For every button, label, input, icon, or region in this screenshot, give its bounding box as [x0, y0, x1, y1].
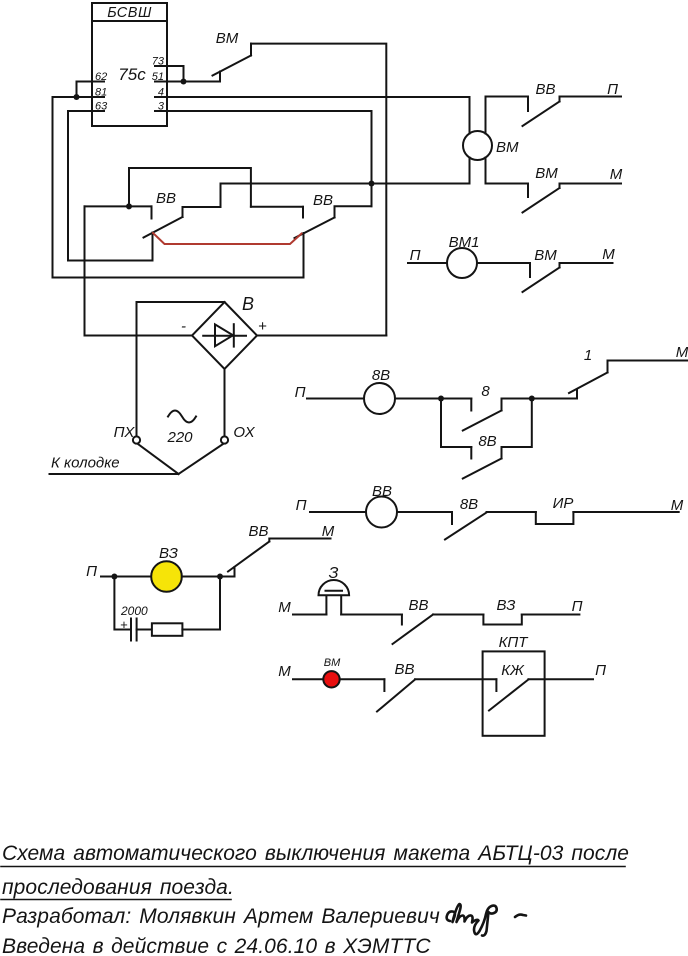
wire lamp VM to contact VV — [340, 678, 385, 680]
wire from first VV terminal down to bridge minus — [85, 206, 193, 335]
coil VM1 — [447, 248, 477, 278]
wire to IR — [487, 511, 536, 513]
svg-text:Схема автоматического выключен: Схема автоматического выключения макета … — [2, 842, 629, 865]
wire to contact VZ — [433, 614, 483, 616]
svg-text:П: П — [296, 497, 307, 514]
svg-text:КПТ: КПТ — [499, 634, 530, 651]
wire PH lead to plug — [138, 444, 179, 474]
wire bell to contact VV — [341, 614, 402, 616]
svg-text:ВЗ: ВЗ — [497, 597, 516, 614]
pin 81 tick — [92, 96, 104, 98]
svg-text:ВВ: ВВ — [394, 661, 414, 678]
svg-text:ВЗ: ВЗ — [159, 545, 178, 562]
svg-text:ВМ: ВМ — [324, 657, 341, 669]
svg-text:220: 220 — [166, 429, 193, 446]
pin 73 tick — [155, 65, 167, 67]
svg-text:ПХ: ПХ — [114, 424, 136, 441]
svg-text:М: М — [676, 344, 688, 361]
contact VM row M — [527, 184, 529, 198]
contact VV second — [302, 207, 304, 218]
wire M to lamp VM — [293, 678, 323, 680]
wire pin3 right and down — [167, 111, 372, 206]
block U1 title separator — [92, 20, 167, 22]
contact VV row bell — [401, 615, 403, 625]
junction pin3 branch — [369, 181, 375, 187]
bell Z legs — [325, 596, 327, 615]
wire to KPT box — [415, 678, 496, 680]
lamp VM red — [323, 671, 339, 687]
wire lamp to contact VV — [182, 576, 235, 578]
svg-text:8: 8 — [481, 383, 490, 400]
block KPT box — [483, 651, 545, 735]
resistor R — [152, 623, 183, 636]
capacitor C 2000 plates — [130, 619, 132, 641]
wire pin51 to contact VM — [167, 81, 220, 83]
svg-text:К колодке: К колодке — [51, 455, 120, 472]
coil 8V — [364, 383, 395, 414]
contact 8 — [470, 399, 472, 411]
title underline 1 — [1, 866, 625, 868]
svg-text:62: 62 — [95, 71, 107, 83]
block U1 BSVSh box — [92, 3, 167, 126]
svg-text:ВМ: ВМ — [534, 247, 557, 264]
contact VV row VZ (step) — [234, 567, 236, 577]
wire pin63 left and down — [68, 111, 153, 261]
svg-text:П: П — [572, 598, 583, 615]
wire P to coil 8V — [307, 398, 364, 400]
wire to terminal strip — [50, 473, 179, 475]
contact VV bottom row — [383, 679, 385, 691]
svg-text:П: П — [295, 384, 306, 401]
contact VV row P — [527, 97, 529, 112]
wire IR to M — [573, 511, 678, 513]
svg-text:4: 4 — [158, 87, 164, 99]
contact VM top (step) — [219, 72, 221, 82]
coil VV — [366, 497, 397, 528]
pin 4 tick — [155, 96, 167, 98]
symbol AC sine — [168, 411, 196, 423]
wire OH lead to plug — [179, 444, 224, 474]
svg-text:П: П — [410, 247, 421, 264]
svg-text:Введена в действие с 24.06.10: Введена в действие с 24.06.10 в ХЭМТТС — [2, 935, 431, 956]
wire branch to second VV blade top — [335, 206, 372, 217]
svg-text:2000: 2000 — [120, 604, 148, 618]
svg-text:ВВ: ВВ — [156, 190, 176, 207]
contact 8V row VV — [451, 512, 453, 524]
contact VM row VM1 — [529, 263, 531, 277]
coil VM — [463, 97, 492, 184]
wire coil to contact VV row P — [486, 96, 529, 98]
svg-text:ОХ: ОХ — [233, 424, 255, 441]
wire pin73 over to pin51 level — [167, 66, 184, 82]
svg-text:63: 63 — [95, 101, 108, 113]
wire pin81 left and down to bottom rail — [53, 97, 304, 278]
pin 51 tick — [155, 81, 167, 83]
svg-text:М: М — [278, 663, 291, 680]
wire second VV left terminal — [251, 206, 303, 208]
wire bridge AC top to PH — [137, 302, 225, 437]
svg-text:М: М — [278, 599, 291, 616]
title underline 2 — [1, 899, 231, 901]
svg-text:В: В — [242, 294, 254, 314]
terminal PH — [133, 436, 140, 443]
svg-text:3: 3 — [158, 101, 165, 113]
wire first VV blade top run — [183, 184, 372, 218]
pin 3 tick — [155, 110, 167, 112]
wire bridge AC bottom to OH — [224, 369, 226, 437]
svg-text:51: 51 — [152, 71, 164, 83]
svg-text:БСВШ: БСВШ — [107, 5, 152, 21]
svg-text:ВМ: ВМ — [496, 139, 519, 156]
wire bridge plus to main vertical — [257, 335, 386, 337]
svg-text:ВМ: ВМ — [535, 165, 558, 182]
svg-text:П: П — [595, 662, 606, 679]
wire coil VV to contact 8V — [397, 511, 452, 513]
junction pins 62-81 — [74, 94, 80, 100]
wire resistor up to lamp right node — [182, 577, 220, 630]
wire coil VM1 to contact — [477, 262, 530, 264]
svg-text:1: 1 — [584, 347, 592, 364]
svg-text:+: + — [258, 318, 267, 335]
wire P to coil VV — [310, 511, 366, 513]
contact KZh inside KPT — [495, 679, 497, 691]
wire pin4 to coil VM — [167, 96, 470, 98]
svg-text:8В: 8В — [372, 367, 390, 384]
contact IR bracket — [536, 512, 574, 524]
wire P to lamp VZ — [101, 576, 152, 578]
wire cap to resistor — [137, 629, 152, 631]
branch parallel 8V contact — [441, 399, 471, 448]
wire KZh to P — [528, 678, 593, 680]
svg-text:Разработал: Молявкин Артем Вал: Разработал: Молявкин Артем Валериевич — [2, 905, 440, 928]
wire pin62 to junction — [77, 82, 93, 98]
wire coil to contact VM row M — [486, 183, 529, 185]
bell Z chord — [326, 590, 343, 592]
svg-text:ВВ: ВВ — [408, 597, 428, 614]
svg-text:8В: 8В — [460, 496, 478, 513]
svg-text:75с: 75с — [118, 65, 146, 84]
junction node right 8V pair — [529, 396, 535, 402]
svg-text:КЖ: КЖ — [501, 662, 525, 679]
wire from junction to coil VM bottom — [372, 183, 470, 185]
bell Z dome — [319, 580, 350, 595]
contact VV first — [151, 206, 153, 218]
wire left terminal feed first VV — [85, 205, 152, 207]
svg-text:ВВ: ВВ — [372, 483, 392, 500]
svg-text:ВВ: ВВ — [248, 523, 268, 540]
wire loop top between VV contacts — [129, 168, 251, 207]
svg-text:81: 81 — [95, 87, 107, 99]
svg-text:М: М — [671, 497, 684, 514]
wire coil 8V to node — [395, 398, 471, 400]
svg-text:ВМ: ВМ — [216, 30, 239, 47]
wire top rail to main vertical — [251, 44, 386, 336]
junction node left 8V pair — [438, 396, 444, 402]
svg-text:П: П — [607, 81, 618, 98]
signature — [447, 904, 526, 936]
junction loop top — [126, 203, 132, 209]
svg-text:М: М — [322, 523, 335, 540]
junction lamp right — [217, 574, 223, 580]
junction pins 73-51 — [181, 79, 187, 85]
terminal OH — [221, 436, 228, 443]
wire M to bell — [293, 614, 326, 616]
svg-text:73: 73 — [152, 56, 165, 68]
svg-text:-: - — [181, 318, 186, 335]
pin 63 tick — [92, 110, 104, 112]
svg-text:8В: 8В — [478, 433, 496, 450]
lamp VZ — [151, 561, 182, 592]
svg-text:М: М — [610, 166, 623, 183]
wire VZ to P — [522, 614, 580, 616]
svg-text:М: М — [602, 246, 615, 263]
svg-text:ВВ: ВВ — [535, 81, 555, 98]
contact VZ bracket — [483, 615, 521, 625]
svg-text:З: З — [329, 565, 339, 582]
svg-text:проследования поезда.: проследования поезда. — [2, 876, 234, 899]
svg-text:+: + — [120, 617, 128, 632]
wire P to coil VM1 — [408, 262, 447, 264]
wire red link between VV pivots — [153, 233, 302, 244]
junction lamp left — [111, 574, 117, 580]
pin 62 tick — [92, 81, 104, 83]
wire RC branch left down — [114, 577, 129, 630]
bridge rectifier B diamond — [192, 302, 257, 369]
svg-text:ИР: ИР — [553, 495, 574, 512]
svg-text:П: П — [86, 563, 97, 580]
contact 1 (step) — [576, 390, 578, 399]
svg-text:ВМ1: ВМ1 — [449, 234, 480, 251]
svg-text:ВВ: ВВ — [313, 192, 333, 209]
wire first pivot down — [152, 233, 154, 261]
bridge diode symbol — [203, 335, 246, 337]
